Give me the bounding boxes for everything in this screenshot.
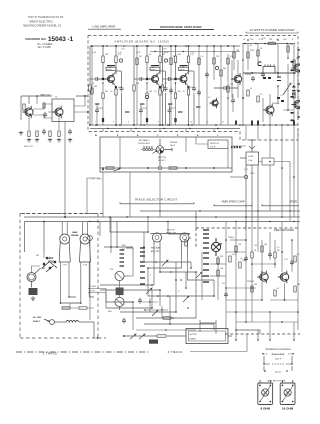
node N141	[286, 370, 288, 372]
svg-text:2SB75: 2SB75	[179, 70, 186, 72]
resistor R25	[227, 58, 229, 64]
resistor R35	[23, 104, 25, 110]
transistor Q12	[210, 98, 219, 108]
node N121	[274, 263, 276, 265]
svg-text:0.05: 0.05	[270, 42, 274, 44]
capacitor C10	[197, 90, 201, 96]
node N74	[147, 216, 149, 218]
wire head load join	[62, 303, 94, 308]
wire	[232, 103, 234, 112]
node N27	[146, 45, 148, 47]
wire	[64, 132, 66, 217]
svg-text:50: 50	[149, 54, 151, 56]
resistor R41	[106, 167, 114, 169]
resistor R34	[227, 86, 229, 92]
wire	[252, 263, 275, 265]
resistor R19	[136, 58, 138, 65]
svg-text:PRE-AMPLIFIER: PRE-AMPLIFIER	[274, 228, 294, 232]
wire	[251, 258, 253, 322]
wire	[133, 91, 135, 125]
node N26	[159, 45, 161, 47]
svg-text:MONITOR: MONITOR	[210, 143, 220, 145]
node N46	[264, 43, 266, 45]
node N133	[201, 275, 203, 277]
svg-text:REC P.B.: REC P.B.	[158, 157, 167, 159]
node N39	[136, 45, 138, 47]
switch arrow	[153, 151, 158, 154]
node N51	[242, 97, 244, 99]
node N115	[123, 335, 125, 337]
node N130	[281, 321, 283, 323]
svg-text:1 TR: 1 TR	[90, 179, 95, 181]
svg-text:4 TRACK: 4 TRACK	[168, 350, 183, 354]
node N35	[162, 124, 164, 126]
wire speaker leads	[260, 380, 270, 383]
svg-text:50: 50	[250, 88, 252, 90]
node N114	[144, 309, 145, 310]
node N88	[43, 221, 45, 223]
wire oscillator top	[21, 96, 88, 120]
transistor Q8	[23, 106, 34, 118]
wire bypass	[121, 71, 123, 125]
extra junction dots	[106, 39, 295, 126]
node N127	[284, 299, 286, 301]
rotary switch S2	[211, 238, 220, 256]
wire	[140, 104, 142, 108]
resistor R16	[187, 89, 189, 95]
svg-text:50: 50	[173, 56, 175, 58]
label part no	[180, 65, 188, 67]
svg-text:AMPLIFIER (BOARD NO. 15050): AMPLIFIER (BOARD NO. 15050)	[114, 39, 169, 43]
svg-text:2SB75: 2SB75	[150, 70, 157, 72]
node N147	[292, 385, 294, 387]
resistor R14	[174, 56, 176, 63]
resistor R58	[235, 246, 237, 252]
svg-text:1 TRACK: 1 TRACK	[43, 351, 58, 355]
node N106	[110, 246, 112, 248]
label edge pins	[297, 50, 299, 117]
wire	[110, 217, 112, 253]
wire feedback	[97, 83, 103, 125]
capacitor C9	[168, 108, 172, 114]
svg-text:0.5: 0.5	[277, 247, 280, 249]
resistor R33	[293, 92, 295, 98]
record interlock labels	[122, 245, 127, 251]
resistor R39	[58, 131, 60, 137]
resistor R56	[294, 256, 296, 262]
wire	[226, 299, 262, 301]
resistor R52	[251, 252, 253, 258]
node N42	[213, 45, 215, 47]
wire	[226, 311, 298, 313]
wire	[169, 113, 171, 125]
svg-text:AMPLIFIER COMP: AMPLIFIER COMP	[222, 200, 245, 204]
capacitor C12	[205, 72, 209, 78]
node N44	[244, 43, 246, 45]
head shield	[116, 288, 124, 296]
node N72	[109, 216, 111, 218]
transistor Q11	[278, 271, 289, 284]
resistor R5	[89, 85, 91, 91]
svg-text:AC 100V: AC 100V	[33, 316, 42, 319]
wire	[261, 282, 263, 300]
svg-text:BIAS: BIAS	[72, 231, 78, 234]
node N126	[261, 299, 263, 301]
wire	[100, 255, 154, 285]
node N78	[281, 216, 283, 218]
node N31	[140, 124, 141, 125]
value label speckle	[92, 42, 300, 291]
node N36	[175, 82, 176, 83]
node N49	[277, 72, 279, 74]
wire preamp outputs	[200, 320, 260, 334]
wire head leads2	[120, 255, 134, 330]
tape deck dashed enclosure	[20, 214, 106, 339]
node N4	[95, 124, 97, 126]
svg-text:REC: REC	[49, 258, 54, 260]
node N54	[287, 109, 289, 111]
node N69	[293, 176, 295, 178]
capacitor C18	[43, 112, 47, 118]
node N99	[175, 311, 177, 313]
svg-text:NEW RECORDER MODEL 15: NEW RECORDER MODEL 15	[23, 24, 61, 28]
node N33	[175, 45, 177, 47]
switch arrow	[283, 83, 291, 95]
node N134	[235, 329, 237, 331]
wire inner frame	[25, 222, 99, 253]
node N55	[293, 85, 295, 87]
node N102	[185, 287, 187, 289]
heading underline	[149, 28, 214, 30]
svg-text:100P: 100P	[190, 87, 195, 89]
label right column blobs	[291, 61, 294, 121]
monitor out block	[262, 158, 274, 165]
resistor R27	[247, 52, 249, 58]
node N87	[289, 210, 290, 211]
label head leads	[89, 286, 97, 293]
pre-amplifier dashed enclosure	[196, 228, 300, 334]
wire	[106, 289, 133, 303]
wire	[188, 255, 215, 280]
transistor Q4	[232, 73, 242, 85]
svg-text:1M: 1M	[296, 58, 299, 60]
node N43	[227, 45, 229, 47]
svg-text:5K6: 5K6	[94, 86, 97, 88]
switch arrow	[152, 310, 158, 316]
wire	[201, 252, 203, 300]
svg-text:SW 4P: SW 4P	[210, 146, 217, 148]
node N97	[190, 267, 192, 269]
legend transformer connections	[265, 348, 291, 351]
transistor Q9	[53, 106, 64, 118]
wire	[217, 256, 219, 300]
wire Vcc drop stage Q2	[147, 46, 160, 79]
capacitor C6	[139, 108, 143, 114]
wire Vcc drop stage Q1	[103, 46, 116, 79]
label pa top values	[243, 39, 294, 41]
wire left drops	[87, 172, 160, 217]
resistor R29	[287, 46, 289, 52]
svg-text:1M: 1M	[162, 54, 165, 56]
motor M1	[27, 269, 40, 288]
joint blobs	[146, 78, 161, 122]
svg-text:8 OHM: 8 OHM	[260, 406, 270, 410]
svg-text:4TR: 4TR	[244, 169, 248, 171]
node N110	[151, 307, 153, 309]
resistor R45	[163, 317, 171, 319]
node N104	[169, 323, 171, 325]
wire	[232, 94, 234, 98]
wire	[126, 248, 133, 255]
svg-text:0.5: 0.5	[260, 94, 263, 96]
svg-text:50/60 C: 50/60 C	[33, 321, 41, 323]
transistor Q4	[152, 233, 161, 255]
wire	[148, 255, 182, 268]
capacitor C2	[94, 77, 100, 81]
node N16	[135, 128, 136, 129]
wire	[195, 211, 197, 228]
wire	[169, 296, 171, 324]
wire	[289, 211, 291, 222]
resistor R10	[159, 89, 161, 95]
node N108	[143, 246, 145, 248]
resistor R9	[150, 67, 160, 70]
wire	[226, 251, 246, 253]
wire	[235, 222, 237, 331]
node N109	[132, 301, 134, 303]
node N23	[89, 124, 91, 126]
connector strip 4 pins	[141, 148, 156, 150]
svg-text:SW: SW	[36, 255, 39, 257]
wire	[167, 222, 169, 235]
svg-text:330: 330	[254, 284, 257, 286]
label stage ticks	[95, 104, 201, 112]
resistor R46	[185, 240, 187, 246]
capacitor C20	[122, 318, 126, 324]
svg-text:PHONO AUX: PHONO AUX	[138, 142, 151, 145]
resistor R48	[217, 258, 219, 264]
node N135	[245, 321, 247, 323]
wire	[147, 217, 149, 232]
node N66	[102, 169, 104, 171]
wire	[251, 222, 253, 253]
node N17	[163, 128, 164, 129]
svg-text:0.5: 0.5	[297, 254, 300, 256]
wire input coupling	[90, 46, 94, 79]
resistor R17	[161, 85, 163, 91]
node N61	[64, 216, 66, 218]
transistor Q3	[178, 73, 188, 84]
node N62	[119, 167, 121, 169]
svg-text:MICROPHONE AMPLIFIER: MICROPHONE AMPLIFIER	[160, 25, 202, 29]
wire fuse leads	[240, 140, 258, 230]
resistor R28	[257, 50, 259, 56]
svg-text:4 TR: 4 TR	[83, 265, 88, 267]
speaker box	[258, 383, 273, 405]
resistor R15	[179, 67, 189, 70]
node N24	[102, 82, 103, 83]
svg-text:10 WATTS POWER AMPLIFIER: 10 WATTS POWER AMPLIFIER	[249, 28, 295, 32]
wire bypass	[165, 71, 167, 125]
svg-text:2SB56: 2SB56	[245, 74, 252, 76]
wire	[284, 283, 286, 300]
resistor R1	[115, 56, 117, 63]
wire	[162, 79, 164, 85]
switch arrow	[216, 244, 222, 248]
node N94	[159, 271, 161, 273]
node N45	[255, 43, 257, 45]
ground	[31, 297, 35, 301]
wire	[243, 72, 296, 74]
fuse box	[246, 152, 259, 165]
wire	[150, 233, 190, 235]
node N131	[297, 311, 299, 313]
svg-text:ADJ 4TR: ADJ 4TR	[151, 250, 160, 253]
capacitor C21	[244, 256, 248, 262]
resistor R57	[294, 286, 296, 292]
label part no	[107, 65, 115, 67]
resistor R50	[229, 256, 231, 262]
svg-text:2SB324: 2SB324	[247, 281, 255, 283]
resistor R38	[49, 131, 51, 137]
capacitor C19	[138, 298, 142, 304]
svg-text:1 TR: 1 TR	[63, 265, 68, 267]
wire speaker leads	[282, 380, 292, 383]
node N140	[264, 370, 266, 372]
junction box inner	[189, 331, 226, 341]
wire	[245, 32, 247, 33]
resistor R32	[257, 96, 259, 102]
wire	[269, 125, 271, 140]
node N47	[286, 43, 288, 45]
wire preamp drops to chassis	[236, 312, 294, 340]
node N9	[215, 124, 217, 126]
switch arrow	[183, 296, 189, 302]
svg-text:0.05: 0.05	[232, 254, 236, 256]
terminal block hatched	[149, 340, 158, 344]
node N48	[251, 72, 253, 74]
node N96	[151, 284, 153, 286]
resistor R47	[157, 335, 166, 337]
switch arrow	[130, 334, 136, 339]
svg-text:100K: 100K	[136, 52, 141, 54]
node N68	[281, 167, 283, 169]
svg-text:Transformer connections: Transformer connections	[265, 348, 291, 351]
transistor Q6	[292, 62, 303, 74]
wire emitter chain	[142, 71, 165, 125]
node N128	[235, 311, 237, 313]
svg-text:2SB54: 2SB54	[228, 237, 235, 239]
node N29	[133, 124, 135, 126]
wire right mid runs	[258, 129, 298, 222]
node N38	[91, 45, 93, 47]
svg-text:16 OHM: 16 OHM	[282, 406, 294, 410]
resistor R40	[43, 103, 45, 108]
capacitor C14	[261, 72, 265, 78]
resistor R54	[274, 252, 276, 258]
resistor R13	[187, 56, 189, 63]
svg-text:TRACK SELECTOR CIRCUIT: TRACK SELECTOR CIRCUIT	[134, 198, 177, 202]
capacitor C4	[164, 86, 168, 92]
wire	[159, 129, 161, 132]
wire motor frame	[32, 252, 45, 273]
bracket	[262, 204, 299, 206]
wire	[96, 113, 98, 125]
svg-text:100P: 100P	[250, 50, 255, 52]
svg-text:15043 -1: 15043 -1	[48, 36, 74, 43]
node N57	[251, 139, 253, 141]
play head D4	[115, 297, 130, 310]
node N3	[213, 51, 214, 52]
node N118	[245, 239, 247, 241]
node N136	[262, 353, 264, 355]
node N7	[167, 124, 169, 126]
wire	[150, 51, 240, 53]
wire	[89, 91, 91, 125]
capacitor C5	[138, 77, 144, 81]
wire	[133, 79, 135, 85]
svg-text:100: 100	[223, 68, 226, 70]
transistor Q10	[257, 271, 268, 284]
wire	[230, 239, 246, 241]
wire head link	[88, 241, 106, 321]
wire selector feeds	[120, 137, 246, 168]
wire	[24, 216, 300, 218]
wire	[140, 113, 142, 125]
joint blobs	[174, 78, 189, 122]
node N143	[270, 385, 272, 387]
driver transformer T2	[263, 65, 275, 74]
wire bypass	[193, 71, 195, 125]
svg-text:FUSE: FUSE	[248, 156, 254, 158]
wire input coupling	[134, 46, 138, 79]
node N71	[64, 216, 66, 218]
node N116	[225, 239, 227, 241]
resistor R43	[62, 307, 70, 309]
svg-text:SELECT: SELECT	[158, 160, 167, 162]
svg-text:OT1: OT1	[262, 38, 266, 40]
resistor R12	[146, 93, 148, 99]
svg-text:0.05: 0.05	[180, 67, 184, 69]
node N144	[259, 401, 261, 403]
joint blobs	[102, 78, 117, 122]
svg-text:TAPE RECORDER: TAPE RECORDER	[267, 380, 286, 383]
node N30	[146, 82, 147, 83]
erase head D2	[79, 222, 90, 262]
node N40	[170, 45, 172, 47]
resistor R18	[174, 93, 176, 99]
resistor R26	[233, 52, 235, 58]
wire	[140, 210, 300, 212]
wire 4 track leader	[190, 334, 247, 352]
wire	[162, 91, 164, 125]
node N84	[159, 210, 160, 211]
wire feedback	[170, 83, 176, 125]
node N53	[277, 85, 279, 87]
wire power rails	[243, 44, 298, 126]
node N64	[185, 167, 187, 169]
resistor R3	[106, 67, 116, 70]
wire	[22, 213, 105, 215]
node N5	[119, 124, 121, 126]
ground	[48, 138, 52, 142]
wire	[130, 129, 132, 132]
node N41	[198, 45, 200, 47]
wire	[225, 222, 227, 331]
transistor Q1	[105, 73, 115, 84]
node N81	[235, 221, 236, 222]
svg-text:40KC P.P.: 40KC P.P.	[24, 146, 34, 148]
